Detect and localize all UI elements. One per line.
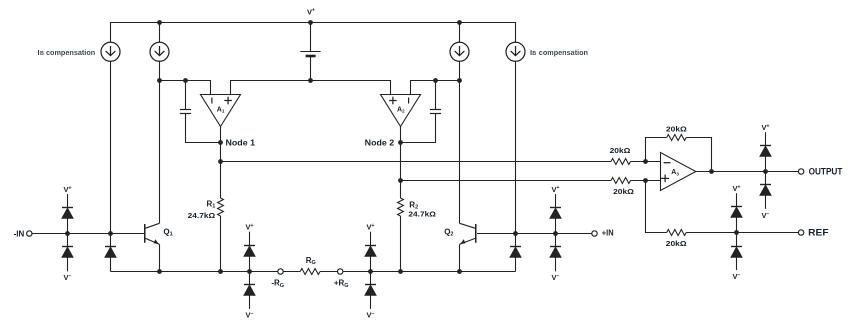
svg-text:-IN: -IN (14, 229, 25, 238)
svg-text:OUTPUT: OUTPUT (809, 166, 843, 177)
svg-text:B: B (532, 51, 536, 57)
svg-text:20kΩ: 20kΩ (613, 187, 634, 196)
svg-text:Node 2: Node 2 (365, 139, 395, 148)
svg-text:20kΩ: 20kΩ (666, 239, 687, 248)
svg-text:Node 1: Node 1 (226, 138, 256, 147)
svg-text:24.7kΩ: 24.7kΩ (408, 210, 436, 219)
svg-text:compensation: compensation (539, 48, 589, 57)
svg-text:20kΩ: 20kΩ (610, 146, 631, 155)
svg-text:24.7kΩ: 24.7kΩ (188, 211, 216, 220)
svg-text:20kΩ: 20kΩ (666, 124, 687, 133)
svg-text:compensation: compensation (46, 48, 96, 57)
svg-text:B: B (40, 51, 44, 57)
svg-text:REF: REF (808, 228, 829, 239)
svg-text:+IN: +IN (602, 229, 614, 238)
